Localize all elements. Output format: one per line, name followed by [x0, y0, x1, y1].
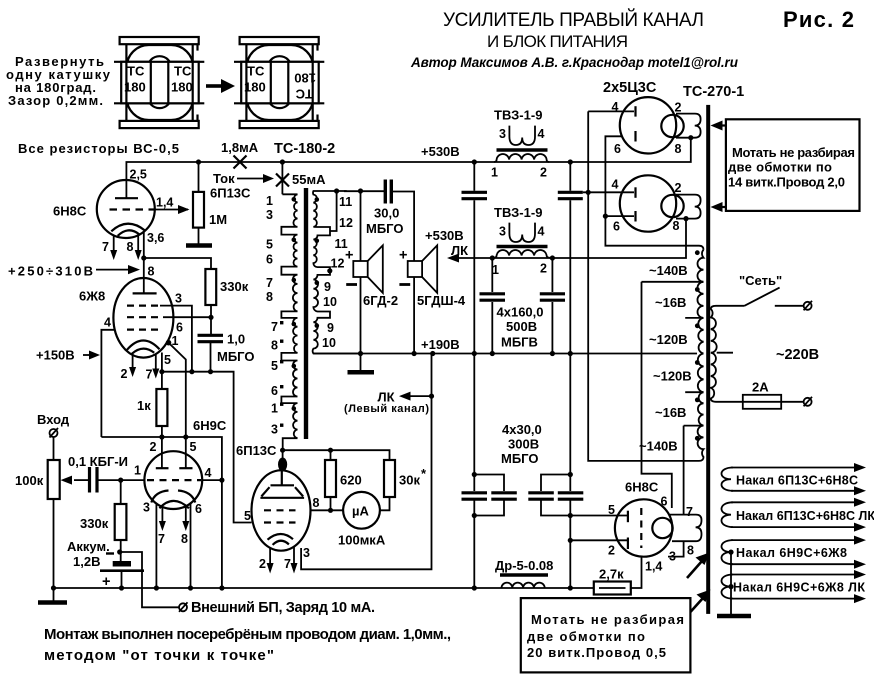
svg-text:10: 10: [323, 295, 337, 309]
node: y437 rail to bus: [219, 585, 224, 590]
svg-text:+530В: +530В: [425, 228, 464, 243]
node: plates-4 / cap B top wire: [586, 190, 591, 195]
wire: 6Zh8 pin4 loop: [101, 330, 114, 437]
node: pair2 top: [568, 472, 573, 477]
svg-text:500В: 500В: [506, 319, 537, 334]
svg-text:1М: 1М: [209, 212, 227, 227]
node: screen/cap junction: [208, 315, 213, 320]
capacitor 1,0 MBGO: [198, 335, 224, 371]
svg-text:0,1 КБГ-И: 0,1 КБГ-И: [68, 454, 128, 469]
tube U6 5Ts3S upper: [620, 97, 684, 153]
heater winding of 5Ts3S upper: [676, 114, 701, 138]
wire: +530V top rail: [126, 138, 690, 198]
resistor 330k grid: [115, 480, 127, 561]
capacitor 0,1 KBG-I: [90, 467, 98, 493]
node: pin6 on bus: [188, 585, 193, 590]
resistor 1k: [156, 389, 167, 437]
svg-text:5: 5: [244, 509, 251, 523]
transformer T1 core: [304, 188, 308, 439]
node: battery minus / ext PSU: [117, 549, 122, 554]
svg-text:180: 180: [244, 80, 266, 95]
svg-text:2,7к: 2,7к: [599, 567, 624, 582]
svg-text:Мотать не разбирая: Мотать не разбирая: [732, 145, 855, 160]
arrow between core drawings: [206, 79, 235, 93]
node: cap B on +190 rail: [568, 351, 573, 356]
svg-text:µА: µА: [352, 504, 369, 519]
svg-text:11: 11: [339, 195, 352, 209]
wire: tube2 pin4 wire from cap B plate: [583, 191, 634, 193]
svg-text:Др-5-0.08: Др-5-0.08: [495, 558, 553, 573]
wire: external PSU line: [120, 552, 179, 607]
svg-text:ТС: ТС: [127, 64, 145, 79]
svg-text:6Ж8: 6Ж8: [79, 289, 105, 304]
svg-text:2,5: 2,5: [130, 168, 147, 182]
node: cap A on +190 rail: [472, 351, 477, 356]
svg-text:4: 4: [612, 178, 619, 192]
svg-text:Монтаж выполнен посеребрёным п: Монтаж выполнен посеребрёным проводом ди…: [44, 626, 451, 643]
svg-text:ТС: ТС: [295, 87, 313, 102]
svg-text:6: 6: [271, 384, 278, 398]
wire: anode to 1M (arrow): [155, 205, 190, 214]
svg-text:Внешний БП, Заряд 10 мА.: Внешний БП, Заряд 10 мА.: [191, 600, 375, 616]
heater winding of 5Ts3S lower: [676, 195, 701, 219]
capacitor bank: cap B: [558, 162, 583, 354]
capacitor bank: cap C: [480, 258, 506, 354]
wire: HV winding end (plates 4) vertical: [588, 111, 697, 461]
wire: heater center taps to ground: [730, 552, 732, 614]
svg-text:Зазор 0,2мм.: Зазор 0,2мм.: [8, 93, 103, 108]
node: pair2 on bus: [568, 585, 573, 590]
svg-text:2: 2: [675, 181, 682, 195]
wire: 6Zh8 pin5 cathode down: [161, 353, 163, 390]
svg-text:+: +: [399, 248, 407, 264]
transformer T4 TS-270-1 core: [706, 105, 710, 614]
svg-text:8: 8: [687, 544, 694, 558]
break symbol X 55mA: [276, 174, 289, 187]
node: W3 center tap: [728, 550, 733, 555]
svg-text:6Н8С: 6Н8С: [625, 480, 659, 495]
svg-text:Накал 6Н9С+6Ж8: Накал 6Н9С+6Ж8: [736, 546, 847, 560]
node: pin2 wire: [568, 538, 573, 543]
node: LK cathode drop: [430, 351, 435, 356]
svg-text:6Н8С: 6Н8С: [53, 204, 87, 219]
capacitor bank: cap D: [540, 258, 565, 354]
svg-text:Ток: Ток: [213, 171, 235, 186]
svg-text:МБГО: МБГО: [217, 349, 254, 364]
svg-text:5: 5: [190, 440, 197, 454]
svg-text:2: 2: [540, 262, 547, 276]
filament arrow pin 2: [259, 548, 274, 574]
wire: secondary top to cap 30,0: [344, 190, 384, 192]
node: 6N9S grid 2: [159, 434, 164, 439]
svg-text:Все резисторы ВС-0,5: Все резисторы ВС-0,5: [18, 141, 179, 156]
ground at bus left: [38, 588, 67, 603]
T4 secondary polarity dots: [695, 250, 700, 255]
svg-text:7: 7: [158, 532, 165, 546]
svg-text:30к: 30к: [399, 473, 420, 488]
node: +250-310V node: [141, 255, 146, 260]
arrow: box to core (lower): [711, 202, 726, 212]
transformer T1 secondary winding: [313, 191, 361, 354]
speaker LS1 6GD-2: [345, 245, 383, 353]
tube U5 6N8S (bias): [615, 499, 673, 556]
filament arrow pin 8: [127, 235, 142, 260]
svg-text:ТВЗ-1-9: ТВЗ-1-9: [494, 205, 542, 220]
resistor 330k (screen): [205, 269, 216, 334]
svg-text:Рис. 2: Рис. 2: [783, 7, 854, 32]
wire: 6N9S pin1 grid input: [99, 479, 145, 481]
node: cap 1,0 joins: [208, 369, 213, 374]
node: pair1 top: [472, 472, 477, 477]
svg-text:3: 3: [143, 501, 150, 515]
node: pin4 junction: [219, 478, 224, 483]
node: heater to +530 rail: [688, 135, 693, 140]
node: speaker1 bottom / ground: [358, 351, 363, 356]
svg-text:3: 3: [303, 546, 310, 560]
svg-text:7: 7: [146, 368, 153, 382]
T4 primary center tap: [717, 352, 733, 354]
svg-text:9: 9: [327, 321, 334, 335]
capacitor bank 4x30,0: pair 2: [528, 354, 628, 589]
node: 6P13S anode junction: [280, 448, 285, 453]
svg-text:5: 5: [164, 353, 171, 367]
svg-text:8: 8: [181, 532, 188, 546]
node: battery plus on bus: [119, 585, 124, 590]
svg-text:1,4: 1,4: [156, 196, 173, 210]
terminal: external PSU: [179, 602, 188, 612]
transformer T1 TS-180-2 primary lead with X: [281, 162, 283, 194]
svg-text:8: 8: [675, 142, 682, 156]
transformer T1 primary winding: [281, 194, 297, 450]
svg-text:5: 5: [608, 503, 615, 517]
svg-text:Вход: Вход: [37, 412, 70, 427]
node: TVZ lower pin1: [490, 255, 495, 260]
svg-text:Накал 6П13С+6Н8С: Накал 6П13С+6Н8С: [736, 474, 858, 488]
svg-text:ТС: ТС: [174, 64, 192, 79]
svg-text:3: 3: [175, 292, 182, 306]
T4 120V(2) section: [685, 354, 703, 393]
svg-text:2: 2: [121, 367, 128, 381]
svg-text:~220В: ~220В: [776, 347, 819, 363]
wire: tube2 pin6 wire: [605, 215, 634, 217]
T4 16V(2) section: [684, 392, 704, 425]
heater winding W1: [721, 463, 866, 495]
svg-text:(Левый канал): (Левый канал): [344, 403, 429, 415]
svg-text:6ГД-2: 6ГД-2: [363, 293, 398, 308]
wire: node to 330k: [144, 258, 211, 269]
ground below 1M: [186, 243, 212, 248]
wire: 6N9S pin3 to bus: [155, 504, 157, 588]
node: tube2 pin6: [603, 214, 608, 219]
svg-text:~16В: ~16В: [655, 295, 686, 310]
svg-text:8: 8: [266, 290, 273, 304]
resistor 30k: [380, 460, 395, 510]
svg-text:4х30,0: 4х30,0: [502, 422, 542, 437]
wire: pin1 diagonal to 6N9S grid: [169, 343, 186, 437]
svg-text:10: 10: [322, 336, 336, 350]
transformer core drawing 2 (TC-180 + rotated 180): [234, 37, 324, 128]
svg-text:8: 8: [127, 240, 134, 254]
svg-text:2: 2: [540, 166, 547, 180]
node: heater2 to LK rail: [683, 216, 688, 221]
svg-text:6: 6: [176, 321, 183, 335]
svg-text:1: 1: [266, 194, 273, 208]
wire: tube1 pin4 plate: [588, 110, 634, 112]
T4 120V(1) section: [698, 318, 703, 354]
node: 1M top: [196, 159, 201, 164]
svg-text:3: 3: [266, 208, 273, 222]
node: grid/330k junction: [118, 478, 123, 483]
svg-text:методом "от точки к точке": методом "от точки к точке": [44, 647, 274, 664]
filament arrow pin 8: [181, 507, 189, 546]
svg-text:Аккум.: Аккум.: [67, 539, 110, 554]
svg-text:4: 4: [538, 127, 545, 141]
svg-text:14 витк.Провод 2,0: 14 витк.Провод 2,0: [728, 175, 845, 190]
wire: +530V LK rail: [474, 219, 686, 258]
wire: pin6 from 16V tap line: [642, 282, 672, 508]
svg-text:"Сеть": "Сеть": [739, 273, 782, 288]
svg-text:20 витк.Провод 0,5: 20 витк.Провод 0,5: [527, 645, 666, 660]
svg-text:+150В: +150В: [36, 348, 75, 363]
svg-text:ТС-270-1: ТС-270-1: [683, 84, 744, 100]
transformer T1 primary polarity dots: [292, 197, 297, 202]
svg-text:1,4: 1,4: [645, 560, 662, 574]
arrow: box to core diagonal 1: [687, 553, 710, 579]
svg-text:1,2В: 1,2В: [73, 554, 100, 569]
svg-text:УСИЛИТЕЛЬ ПРАВЫЙ КАНАЛ: УСИЛИТЕЛЬ ПРАВЫЙ КАНАЛ: [443, 9, 704, 31]
svg-text:180: 180: [124, 80, 146, 95]
node: TVZ lower pin2: [550, 255, 555, 260]
svg-text:300В: 300В: [508, 437, 539, 452]
svg-text:МБГО: МБГО: [366, 221, 403, 236]
svg-text:8: 8: [313, 496, 320, 510]
wire: ground bus y=588: [54, 587, 594, 589]
wire: 6N9S pin6 to bus: [190, 504, 192, 589]
wire: speaker1 drop: [360, 191, 362, 261]
svg-text:4: 4: [538, 225, 545, 239]
label +150V with arrow: [36, 348, 100, 363]
svg-text:2: 2: [259, 557, 266, 571]
svg-text:8: 8: [673, 219, 680, 233]
svg-text:6П13С: 6П13С: [210, 186, 251, 201]
svg-text:6П13С: 6П13С: [236, 443, 277, 458]
svg-text:2А: 2А: [752, 380, 769, 395]
svg-text:+250÷310В: +250÷310В: [8, 264, 93, 279]
svg-text:1,8мА: 1,8мА: [221, 140, 259, 155]
node: W4 center tap: [728, 584, 733, 589]
wire: grid rail y=437: [101, 437, 221, 588]
svg-text:7: 7: [271, 320, 278, 334]
svg-text:7: 7: [266, 276, 273, 290]
T4 secondary column 140V(1): [642, 250, 704, 282]
svg-text:Автор Максимов А.В. г.Краснода: Автор Максимов А.В. г.Краснодар motel1@r…: [410, 55, 739, 70]
wire: plates-6 vertical to 140V top: [605, 136, 703, 249]
tube U4 6P13S: [252, 470, 311, 550]
filament arrow pin 7: [146, 354, 160, 382]
svg-text:620: 620: [340, 473, 362, 488]
svg-text:4: 4: [205, 466, 212, 480]
filament arrow pin 7: [102, 235, 117, 260]
node: TS-180-2 primary top: [280, 159, 285, 164]
svg-text:МБГВ: МБГВ: [501, 335, 538, 350]
arrow: box to core diagonal 2: [690, 590, 710, 613]
heater winding of 6N8S: [668, 515, 702, 557]
switch "Set" (mains): [716, 288, 812, 311]
wire: secondary parallel tap to top: [330, 191, 337, 231]
filament arrow pin 7: [284, 546, 298, 573]
node: cap A top: [472, 159, 477, 164]
wire: 6Zh8 pin6 to screen node: [163, 316, 211, 318]
input terminal Vhod: [37, 412, 70, 460]
wire: 6N9S pin4: [202, 479, 222, 481]
svg-text:6: 6: [195, 502, 202, 516]
svg-text:~140В: ~140В: [649, 263, 688, 278]
transformer T1 secondary polarity dots: [315, 197, 320, 202]
svg-text:6: 6: [266, 253, 273, 267]
svg-text:6: 6: [614, 142, 621, 156]
svg-text:1,0: 1,0: [227, 332, 245, 347]
tube U3 6N9S: [144, 437, 202, 509]
node: pair2 bottom / pin5 wire: [568, 513, 573, 518]
svg-text:~140В: ~140В: [639, 439, 678, 454]
svg-text:3: 3: [271, 423, 278, 437]
svg-text:8: 8: [148, 265, 155, 279]
svg-text:6: 6: [661, 495, 668, 509]
node: pin1 on tube edge: [166, 340, 172, 346]
svg-text:1к: 1к: [137, 398, 151, 413]
wire: 6N8S pins 3,6 down to 6Zh8 grid cap: [143, 232, 145, 293]
resistor 2,7k (in bus): [594, 557, 642, 595]
svg-text:30,0: 30,0: [374, 206, 399, 221]
node: 620 top: [328, 448, 333, 453]
svg-text:330к: 330к: [80, 516, 109, 531]
svg-text:~120В: ~120В: [649, 332, 688, 347]
capacitor bank 4x30,0: pair 1: [462, 354, 517, 589]
node: LK arrow junction: [429, 394, 434, 399]
svg-text:55мА: 55мА: [292, 172, 326, 187]
node: cap C on +190 rail: [490, 351, 495, 356]
T4 16V(1) section: [685, 282, 703, 318]
svg-text:180: 180: [294, 71, 316, 86]
resistor 1M: [193, 162, 204, 245]
svg-text:1: 1: [134, 464, 141, 478]
svg-text:+530В: +530В: [421, 144, 460, 159]
svg-text:2: 2: [608, 544, 615, 558]
label Tok (current) with arrow: [213, 171, 274, 186]
box: wind 20 turns note: [521, 598, 691, 672]
filament arrow pin 7: [158, 507, 166, 546]
heater winding W3: [721, 536, 866, 569]
wire: +190V rail: [313, 353, 697, 355]
ground under speakers: [348, 354, 375, 373]
svg-text:7: 7: [284, 557, 291, 571]
filament arrow pin 2: [121, 355, 137, 381]
capacitor 30,0 MBGO: [385, 180, 414, 262]
svg-text:ТС: ТС: [247, 64, 265, 79]
svg-text:6: 6: [613, 220, 620, 234]
node: secondary step dot: [327, 268, 332, 273]
wire: 6Zh8 pin3 (grid1): [160, 306, 192, 372]
node: 1k top: [159, 369, 164, 374]
svg-text:+: +: [345, 248, 353, 264]
node: pair1 on bus: [472, 585, 477, 590]
node: cap D on +190 rail: [550, 351, 555, 356]
meter uA 100uA: [343, 492, 380, 529]
node: 620 bottom: [328, 508, 333, 513]
node: speaker2 bottom: [412, 351, 417, 356]
resistor 620: [325, 450, 336, 510]
wire: 6P13S pin3 cathode loop to LK node: [301, 354, 433, 570]
svg-text:ТВЗ-1-9: ТВЗ-1-9: [494, 108, 542, 123]
label +250..310V with arrow: [8, 264, 140, 279]
svg-text:4х160,0: 4х160,0: [497, 305, 544, 320]
node: pin3 wire joins: [189, 369, 194, 374]
node: pair1 bottom: [472, 513, 477, 518]
transformer T2 TVZ-1-9 upper: [491, 108, 549, 180]
svg-text:5: 5: [266, 238, 273, 252]
choke Dr-5-0.08: [495, 558, 553, 588]
svg-text:12: 12: [339, 216, 353, 230]
tube U1 6N8S (input half): [97, 180, 155, 238]
svg-text:3: 3: [499, 127, 506, 141]
svg-text:3,6: 3,6: [147, 231, 164, 245]
fuse 2A: [716, 395, 812, 409]
transformer T3 TVZ-1-9 lower: [492, 205, 552, 277]
svg-text:6Н9С: 6Н9С: [193, 418, 227, 433]
svg-text:1: 1: [271, 402, 278, 416]
node: speaker1 top feed: [358, 188, 363, 193]
svg-text:9: 9: [324, 280, 331, 294]
break symbol X 1,8mA: [234, 156, 247, 169]
svg-text:330к: 330к: [220, 279, 249, 294]
potentiometer 100k: [48, 460, 89, 588]
svg-text:5: 5: [271, 359, 278, 373]
speaker LS2 5GDSh-4: [399, 245, 437, 353]
arrow: box to core (upper): [711, 121, 726, 131]
tube U7 5Ts3S lower: [620, 175, 684, 231]
svg-text:100к: 100к: [15, 473, 44, 488]
svg-text:4: 4: [104, 316, 111, 330]
wire: cathode bus y=372: [162, 372, 252, 523]
T4 140V(2) section: [697, 426, 704, 461]
svg-text:~16В: ~16В: [655, 405, 686, 420]
svg-text:И БЛОК ПИТАНИЯ: И БЛОК ПИТАНИЯ: [487, 32, 628, 51]
svg-text:3: 3: [499, 225, 506, 239]
svg-text:две обмотки по: две обмотки по: [728, 160, 832, 175]
node: pot bottom: [51, 585, 56, 590]
T4 primary 220V winding: [711, 306, 717, 402]
svg-text:МБГО: МБГО: [501, 451, 538, 466]
svg-text:ТС-180-2: ТС-180-2: [274, 141, 335, 157]
heater winding W4: [721, 570, 866, 603]
box: wind 14 turns note: [726, 119, 860, 211]
wire: anode node to 30k top: [283, 450, 390, 460]
svg-text:1: 1: [491, 166, 498, 180]
capacitor bank 4x160,0 500V MBGV : cap A: [462, 162, 488, 354]
node: pin3 on bus: [154, 585, 159, 590]
arrow: +530V LK from cap A line: [447, 254, 474, 263]
ground at heater taps: [717, 614, 751, 619]
svg-text:Накал 6Н9С+6Ж8 ЛК: Накал 6Н9С+6Ж8 ЛК: [733, 581, 865, 595]
battery Akkum 1,2V: [67, 539, 144, 590]
node: secondary tap top: [334, 188, 339, 193]
transformer core drawing 1 (TC-180 + TC-180): [114, 37, 204, 128]
svg-text:Накал 6П13С+6Н8С ЛК: Накал 6П13С+6Н8С ЛК: [736, 509, 874, 523]
svg-text:2: 2: [150, 440, 157, 454]
node: cap B top: [568, 159, 573, 164]
svg-text:180: 180: [171, 80, 193, 95]
svg-text:8: 8: [271, 339, 278, 353]
